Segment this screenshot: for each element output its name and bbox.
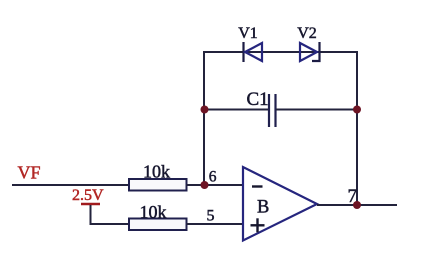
svg-text:C1: C1 (247, 89, 269, 110)
svg-text:V1: V1 (238, 25, 258, 42)
svg-text:2.5V: 2.5V (72, 187, 104, 204)
wire pin 5 (187, 223, 244, 225)
wire VF input (12, 184, 129, 186)
junction node C1 right (353, 106, 361, 114)
junction node output (353, 201, 361, 209)
svg-text:5: 5 (207, 208, 215, 225)
diode V1 (244, 42, 263, 62)
op-amp U1 (B) (243, 167, 317, 241)
wire left vertical feedback (203, 51, 205, 186)
wire output pin 7 (317, 204, 397, 206)
wire top feedback (diode branch) (205, 51, 357, 53)
diode V2 (300, 42, 320, 61)
svg-text:6: 6 (209, 169, 217, 186)
svg-text:10k: 10k (140, 202, 167, 222)
junction node pin 6 (201, 181, 209, 189)
capacitor C1 (269, 94, 276, 127)
resistor R1 10k (top) (129, 179, 187, 191)
svg-text:B: B (257, 198, 269, 218)
junction node C1 left (201, 106, 209, 114)
svg-text:VF: VF (18, 163, 41, 183)
resistor R2 10k (bottom) (129, 219, 187, 231)
wire C1 branch left (204, 109, 269, 111)
2.5V reference bar (81, 203, 100, 206)
wire right vertical feedback (356, 51, 358, 206)
wire C1 branch right (276, 109, 357, 111)
svg-text:V2: V2 (297, 25, 317, 42)
svg-text:10k: 10k (143, 162, 170, 182)
wire from 2.5V to lower resistor (91, 205, 130, 224)
wire pin 6 (187, 184, 244, 186)
